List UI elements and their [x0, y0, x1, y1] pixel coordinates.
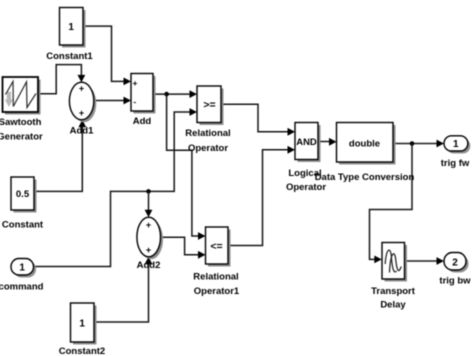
- svg-text:command: command: [0, 282, 44, 293]
- svg-text:Operator: Operator: [188, 143, 228, 154]
- block Constant2: [71, 303, 97, 345]
- block Constant 0.5: [11, 177, 37, 213]
- svg-text:Operator1: Operator1: [194, 286, 240, 297]
- wire W5 Add output to Relational Operator input 1: [153, 90, 197, 98]
- wire W14 Data Type Conversion output to out port trig fw: [393, 140, 444, 148]
- junction node on Add output: [164, 92, 169, 97]
- block Constant1: [60, 8, 86, 48]
- svg-text:+: +: [79, 108, 84, 118]
- svg-text:double: double: [349, 138, 380, 149]
- svg-text:Add1: Add1: [70, 126, 94, 137]
- wire W7 command to Relational Operator input 2: [34, 108, 198, 266]
- svg-text:Generator: Generator: [0, 132, 43, 143]
- svg-text:Relational: Relational: [185, 128, 230, 139]
- svg-text:AND: AND: [296, 137, 317, 148]
- wire W11 Relational Operator output to AND input 1: [221, 104, 295, 136]
- svg-text:Relational: Relational: [193, 271, 238, 282]
- wire W12 Relational Operator1 output to AND input 2: [228, 146, 295, 246]
- svg-text:+: +: [79, 84, 84, 94]
- wire W9 Constant2 to Add2 bottom: [94, 257, 152, 322]
- outport trig fw: [444, 136, 470, 154]
- wire W13 AND output to Data Type Conversion input: [318, 138, 337, 146]
- svg-text:Sawtooth: Sawtooth: [0, 117, 42, 128]
- svg-text:1: 1: [453, 139, 459, 150]
- wire W4 Constant 0.5 to Add1 bottom: [34, 120, 86, 192]
- svg-text:1: 1: [79, 318, 85, 329]
- svg-text:<=: <=: [210, 240, 222, 252]
- svg-text:2: 2: [452, 258, 458, 269]
- wire W1 Sawtooth Generator to Add1 top: [38, 65, 85, 94]
- svg-text:-: -: [133, 96, 136, 106]
- block Add: [131, 74, 156, 114]
- svg-text:Data Type Conversion: Data Type Conversion: [315, 172, 415, 183]
- junction node on command wire: [146, 189, 151, 194]
- wire W2 Constant1 to Add plus input: [83, 26, 131, 85]
- wire W8 command branch to Add2 top: [145, 191, 153, 217]
- block Logical Operator AND: [295, 123, 321, 163]
- svg-text:trig fw: trig fw: [441, 158, 470, 169]
- svg-text:Constant1: Constant1: [46, 51, 93, 62]
- wire W10 Add2 output to Relational Operator1 input 2: [161, 237, 206, 259]
- wire W15 double output branch to Transport Delay: [370, 144, 413, 264]
- svg-text:+: +: [146, 245, 151, 255]
- svg-text:Transport: Transport: [371, 286, 416, 297]
- svg-text:+: +: [146, 220, 151, 230]
- outport trig bw: [444, 253, 469, 273]
- svg-text:0.5: 0.5: [16, 189, 30, 200]
- junction node on double output: [410, 141, 415, 146]
- svg-text:Operator: Operator: [286, 182, 326, 193]
- svg-text:1: 1: [19, 263, 25, 274]
- block Relational Operator >=: [197, 86, 224, 125]
- svg-text:Delay: Delay: [380, 299, 406, 310]
- svg-text:Constant: Constant: [2, 220, 44, 231]
- inport command: [11, 259, 36, 278]
- wire W16 Transport Delay output to out port trig bw: [405, 257, 445, 265]
- sum block Add1: [69, 82, 96, 122]
- svg-text:trig bw: trig bw: [439, 275, 471, 286]
- svg-text:Constant2: Constant2: [59, 346, 105, 356]
- svg-text:>=: >=: [203, 99, 215, 111]
- sum block Add2: [137, 217, 163, 259]
- svg-text:+: +: [133, 78, 138, 88]
- svg-text:Add2: Add2: [137, 260, 161, 271]
- block Relational Operator1 <=: [206, 227, 231, 267]
- wire W3 Add1 output to Add minus input: [94, 97, 131, 105]
- svg-text:Add: Add: [133, 116, 152, 127]
- block Data Type Conversion double: [337, 123, 396, 165]
- svg-text:1: 1: [68, 22, 74, 33]
- wire W6 Add output branch to Relational Operator1 input 1: [167, 94, 206, 240]
- block Sawtooth Generator: [3, 77, 41, 115]
- block Transport Delay: [382, 243, 407, 282]
